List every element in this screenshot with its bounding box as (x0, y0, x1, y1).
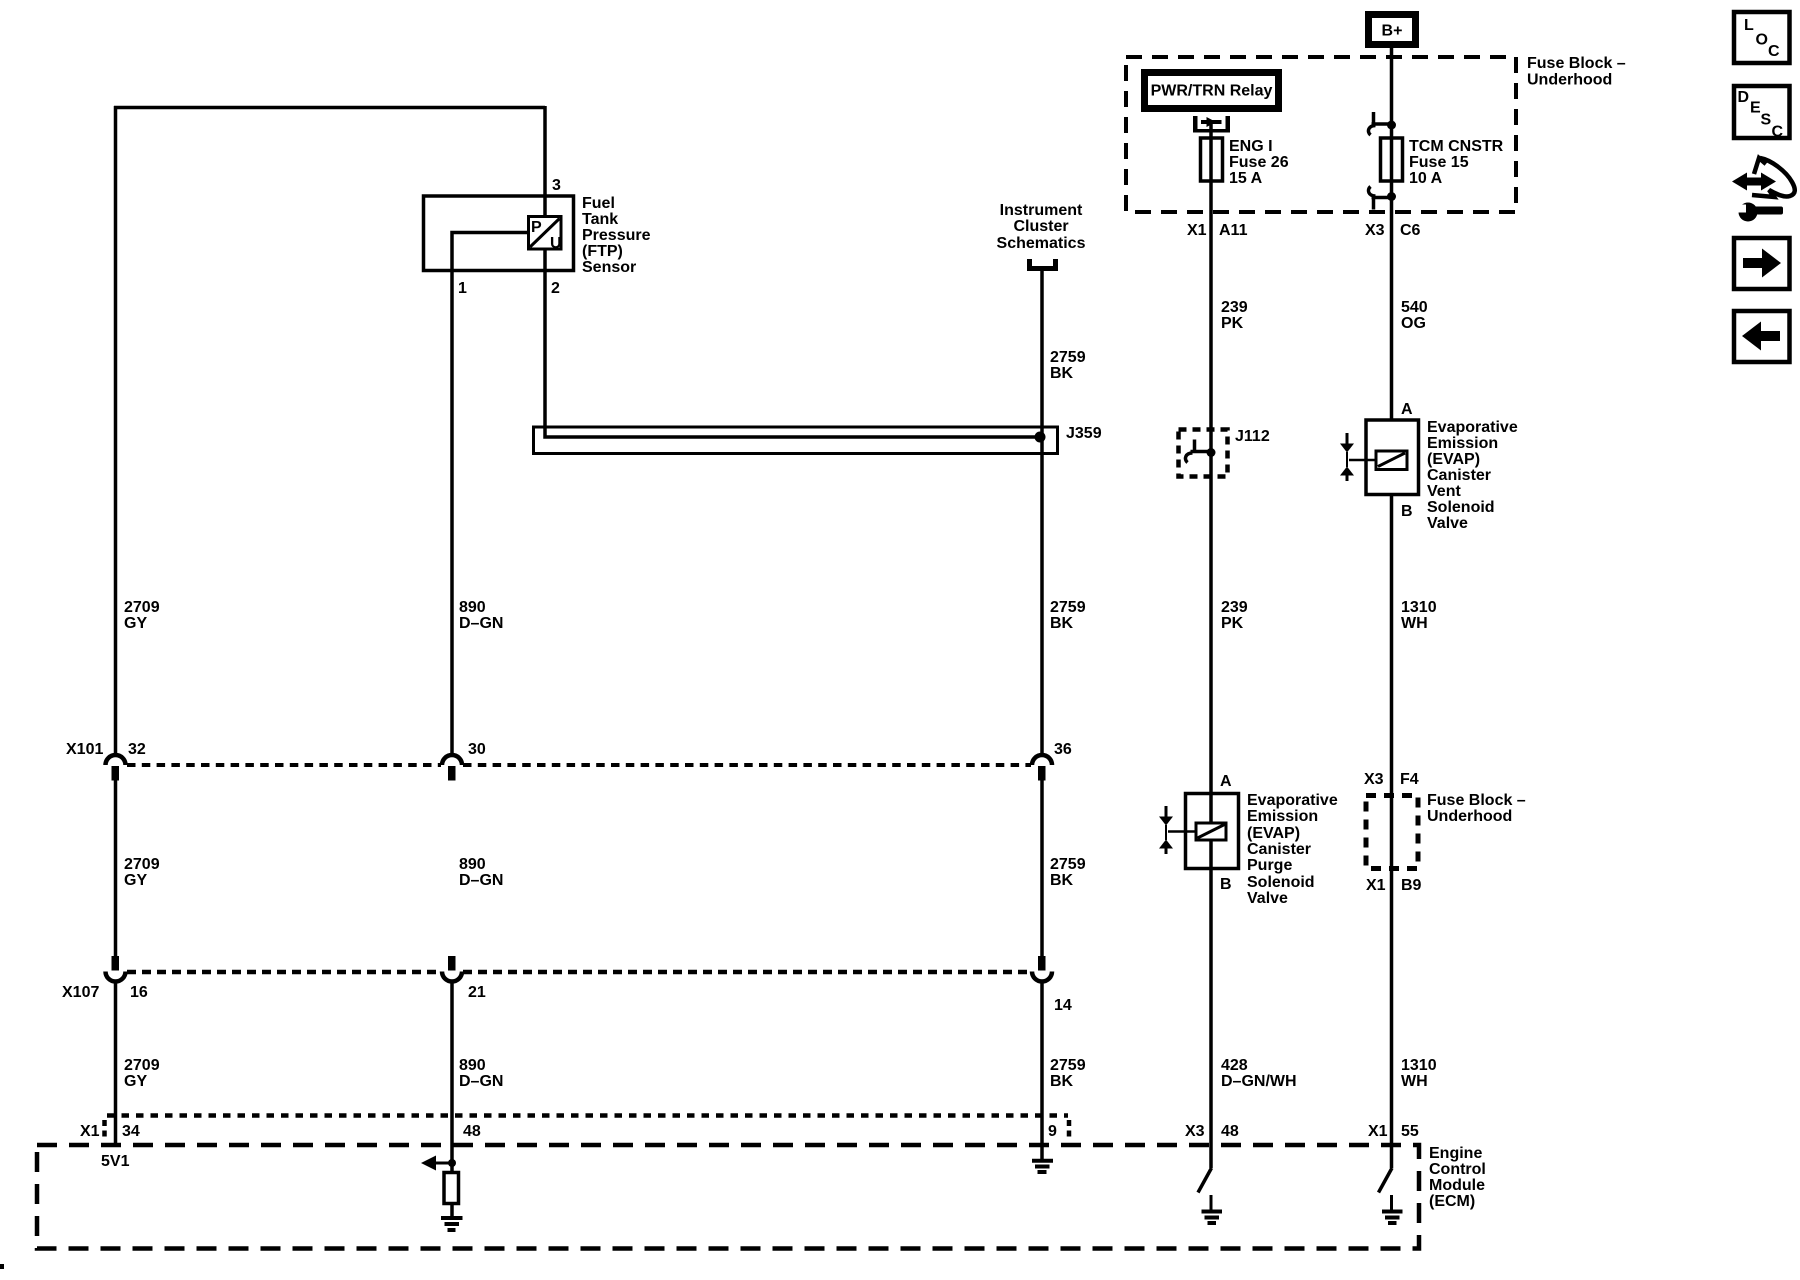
vent solenoid pin B label (1401, 503, 1413, 520)
svg-text:Cluster: Cluster (1013, 218, 1068, 235)
X107 terminal 21 (pin + arc) (442, 956, 462, 982)
vent solenoid pin A label (1401, 401, 1413, 418)
wire label 1310 WH row 4 (1401, 1057, 1437, 1090)
wire top horizontal from left wire to FTP pin 3 (114, 106, 545, 110)
resistor R1 inside ECM (444, 1173, 459, 1204)
svg-text:10 A: 10 A (1409, 170, 1443, 187)
svg-text:15 A: 15 A (1229, 170, 1263, 187)
svg-text:D: D (1738, 89, 1750, 106)
X101 pin 32 label (128, 741, 146, 758)
X107 terminal 14 (pin + arc) (1032, 956, 1052, 982)
svg-text:Schematics: Schematics (997, 235, 1086, 252)
connector X107 dashed line (127, 970, 1031, 975)
svg-text:B9: B9 (1401, 877, 1422, 894)
EVAP canister vent solenoid valve box (1366, 420, 1419, 495)
fuse block pin labels X1 A11 (1187, 222, 1248, 239)
svg-text:X3: X3 (1185, 1123, 1205, 1140)
wire 2759 BK lower segment to ground (1040, 982, 1044, 1160)
off-page connector bracket to instrument cluster (1030, 259, 1056, 269)
svg-text:BK: BK (1050, 1073, 1074, 1090)
svg-text:2759: 2759 (1050, 1057, 1086, 1074)
pin 1 label (458, 280, 467, 297)
ECM driver switch for purge solenoid (1198, 1168, 1212, 1193)
svg-text:3: 3 (552, 177, 561, 194)
J359 label (1066, 425, 1102, 442)
svg-text:O: O (1756, 32, 1768, 49)
J359 splice box (534, 427, 1058, 454)
svg-text:S: S (1761, 112, 1772, 129)
fuse TCM CNSTR Fuse 15 10A (1381, 138, 1403, 181)
connector X101 dashed line (127, 763, 1031, 767)
svg-text:Canister: Canister (1247, 841, 1311, 858)
purge solenoid pin B label (1220, 876, 1232, 893)
wire label 890 D-GN row 4 (459, 1057, 503, 1090)
svg-text:GY: GY (124, 615, 147, 632)
wire label 890 D-GN row 3 (459, 856, 503, 889)
svg-text:Solenoid: Solenoid (1427, 499, 1495, 516)
X107 pin 21 label (468, 984, 486, 1001)
svg-text:(ECM): (ECM) (1429, 1193, 1475, 1210)
svg-text:PK: PK (1221, 615, 1244, 632)
svg-text:9: 9 (1048, 1123, 1057, 1140)
svg-text:1310: 1310 (1401, 599, 1437, 616)
svg-text:B: B (1220, 876, 1232, 893)
relay contact output symbol (1193, 116, 1230, 133)
fuse block pin labels X3 C6 (1365, 222, 1421, 239)
svg-text:2709: 2709 (124, 856, 160, 873)
svg-text:36: 36 (1054, 741, 1072, 758)
svg-text:(EVAP): (EVAP) (1247, 825, 1300, 842)
vent solenoid coil (1349, 451, 1407, 470)
svg-text:890: 890 (459, 599, 486, 616)
svg-text:2759: 2759 (1050, 856, 1086, 873)
signal arrow to other circuit at ECM pin 48 (421, 1156, 456, 1171)
svg-text:239: 239 (1221, 599, 1248, 616)
svg-text:16: 16 (130, 984, 148, 1001)
EVAP canister purge solenoid valve box (1186, 794, 1239, 869)
svg-text:ENG I: ENG I (1229, 138, 1273, 155)
svg-text:GY: GY (124, 872, 147, 889)
ENG I fuse label (1229, 138, 1289, 187)
svg-text:Canister: Canister (1427, 467, 1491, 484)
pin 3 label (552, 177, 561, 194)
svg-text:GY: GY (124, 1073, 147, 1090)
svg-text:Pressure: Pressure (582, 227, 651, 244)
wire FTP pin 2 vertical down to J359 (545, 249, 1040, 437)
svg-text:Control: Control (1429, 1161, 1486, 1178)
wire label 2759 BK row 1 (1050, 349, 1086, 382)
svg-text:TCM CNSTR: TCM CNSTR (1409, 138, 1504, 155)
svg-text:2709: 2709 (124, 1057, 160, 1074)
wire label 2759 BK row 2 (1050, 599, 1086, 632)
P/U sensor symbol U1 (529, 217, 562, 253)
svg-text:540: 540 (1401, 299, 1428, 316)
svg-text:Underhood: Underhood (1527, 72, 1612, 89)
svg-text:Emission: Emission (1247, 808, 1318, 825)
svg-text:(FTP): (FTP) (582, 243, 623, 260)
svg-text:D–GN: D–GN (459, 872, 503, 889)
TCM fuse upper terminal clip (1368, 112, 1396, 135)
ECM pin labels X3 48 (1185, 1123, 1239, 1140)
svg-text:Valve: Valve (1247, 890, 1288, 907)
svg-text:BK: BK (1050, 615, 1074, 632)
fuse ENG I Fuse 26 15A (1201, 138, 1223, 181)
svg-text:PK: PK (1221, 315, 1244, 332)
svg-text:Instrument: Instrument (1000, 202, 1083, 219)
svg-text:5V1: 5V1 (101, 1153, 130, 1170)
wire left vertical 2709 GY upper segment (114, 106, 118, 755)
svg-text:PWR/TRN Relay: PWR/TRN Relay (1151, 83, 1273, 100)
svg-text:890: 890 (459, 1057, 486, 1074)
svg-text:WH: WH (1401, 615, 1428, 632)
wire resistor to ground (450, 1204, 454, 1218)
svg-text:2759: 2759 (1050, 349, 1086, 366)
purge solenoid valve symbol (1159, 806, 1173, 854)
svg-text:890: 890 (459, 856, 486, 873)
fuse block pass-through label (1427, 792, 1526, 825)
X101 terminal 32 (arc + pin) (106, 755, 126, 781)
svg-text:X1: X1 (1368, 1123, 1388, 1140)
svg-text:14: 14 (1054, 997, 1072, 1014)
ground G2 ECM internal (sensor return) (441, 1218, 463, 1230)
ECM driver ground purge (1202, 1195, 1223, 1223)
X107 terminal 16 (pin + arc) (106, 956, 126, 982)
svg-text:A11: A11 (1219, 222, 1248, 239)
svg-text:C6: C6 (1400, 222, 1421, 239)
pin 2 label (551, 280, 560, 297)
svg-text:(EVAP): (EVAP) (1427, 451, 1480, 468)
svg-text:Fuse Block –: Fuse Block – (1527, 55, 1626, 72)
svg-text:A: A (1220, 773, 1232, 790)
svg-text:2709: 2709 (124, 599, 160, 616)
svg-text:Emission: Emission (1427, 435, 1498, 452)
wire label 890 D-GN row 2 (459, 599, 503, 632)
wire label 540 OG row 1 (1401, 299, 1428, 332)
X101 pin 30 label (468, 741, 486, 758)
J112 splice clip (1185, 440, 1215, 463)
wire label 428 D-GN/WH row 4 (1221, 1057, 1297, 1090)
PWR/TRN Relay box (1141, 69, 1282, 112)
connector X1 dotted line (ECM harness) (107, 1113, 1068, 1118)
connector X101 label (66, 741, 103, 758)
wire label 2759 BK row 3 (1050, 856, 1086, 889)
svg-text:239: 239 (1221, 299, 1248, 316)
5V1 net label (101, 1153, 130, 1170)
svg-text:C: C (1772, 124, 1784, 141)
svg-text:Fuse 15: Fuse 15 (1409, 154, 1469, 171)
X1 pin 9 label (1048, 1123, 1057, 1140)
vent solenoid valve symbol (1340, 433, 1354, 481)
svg-text:BK: BK (1050, 872, 1074, 889)
svg-text:OG: OG (1401, 315, 1426, 332)
svg-text:X3: X3 (1364, 771, 1384, 788)
wire label 2759 BK row 4 (1050, 1057, 1086, 1090)
Fuse Block - Underhood label (top right) (1527, 55, 1626, 89)
svg-text:X3: X3 (1365, 222, 1385, 239)
svg-text:F4: F4 (1400, 771, 1419, 788)
Fuse Block - Underhood dashed box (1126, 57, 1516, 212)
svg-text:Fuse 26: Fuse 26 (1229, 154, 1289, 171)
fuse block pass-through dashed box (1366, 796, 1418, 869)
svg-text:Fuel: Fuel (582, 195, 615, 212)
svg-text:1310: 1310 (1401, 1057, 1437, 1074)
svg-text:48: 48 (1221, 1123, 1239, 1140)
wire 890 D-GN bottom segment into ECM (450, 982, 454, 1173)
J359 junction dot (1035, 432, 1046, 443)
wire label 1310 WH row 2 (1401, 599, 1437, 632)
svg-text:L: L (1744, 17, 1754, 34)
svg-text:X1: X1 (80, 1123, 100, 1140)
FTP sensor name label (582, 195, 651, 276)
svg-text:C: C (1768, 43, 1780, 60)
wire label 239 PK row 2 (1221, 599, 1248, 632)
X101 terminal 30 (arc + pin) (442, 755, 462, 781)
svg-text:B+: B+ (1382, 23, 1403, 40)
purge solenoid coil (1168, 823, 1226, 840)
svg-text:Engine: Engine (1429, 1145, 1482, 1162)
EVAP canister vent solenoid valve label (1427, 419, 1518, 532)
X1 pin 34 label (122, 1123, 140, 1140)
B+ power feed box (1365, 11, 1419, 48)
wire label 2709 GY row 2 (124, 599, 160, 632)
Instrument Cluster Schematics label (997, 202, 1086, 252)
svg-text:U: U (550, 235, 562, 252)
X1 pin 48 label (463, 1123, 481, 1140)
svg-text:1: 1 (458, 280, 467, 297)
svg-text:D–GN: D–GN (459, 1073, 503, 1090)
ECM driver ground vent (1382, 1195, 1403, 1223)
wire label 239 PK row 1 (1221, 299, 1248, 332)
X107 pin 16 label (130, 984, 148, 1001)
wire 2759 BK middle segment (1040, 780, 1044, 956)
fuse block pass-through X1 B9 labels (1366, 877, 1422, 894)
Engine Control Module (ECM) label (1429, 1145, 1486, 1210)
FTP sensor box (424, 196, 574, 271)
wire FTP pin 1 (890 D-GN) from P/U to left then down (452, 233, 527, 755)
ECM pin labels X1 55 (1368, 1123, 1419, 1140)
svg-text:Evaporative: Evaporative (1427, 419, 1518, 436)
svg-text:X101: X101 (66, 741, 103, 758)
svg-text:32: 32 (128, 741, 146, 758)
svg-text:E: E (1750, 100, 1761, 117)
svg-text:Underhood: Underhood (1427, 808, 1512, 825)
svg-text:J359: J359 (1066, 425, 1102, 442)
X1 connector label separator left (102, 1120, 107, 1140)
svg-text:A: A (1401, 401, 1413, 418)
wire 540 OG from B+ down through TCM fuse (1390, 48, 1394, 419)
connector X107 label (62, 984, 99, 1001)
svg-text:D–GN/WH: D–GN/WH (1221, 1073, 1297, 1090)
svg-text:21: 21 (468, 984, 486, 1001)
svg-text:428: 428 (1221, 1057, 1248, 1074)
wire 1310 WH from vent solenoid down (1390, 494, 1394, 1168)
ECM driver switch for vent solenoid (1379, 1168, 1393, 1193)
TCM fuse lower terminal clip (1368, 187, 1396, 210)
svg-text:X1: X1 (1187, 222, 1207, 239)
svg-text:X107: X107 (62, 984, 99, 1001)
DESC navigation icon box (1734, 86, 1790, 141)
wire 2759 BK from bracket down through J359 (1040, 271, 1044, 755)
X107 pin 14 label (1054, 997, 1072, 1014)
svg-text:BK: BK (1050, 365, 1074, 382)
J112 splice dashed box (1179, 430, 1228, 477)
X101 pin 36 label (1054, 741, 1072, 758)
EVAP canister purge solenoid valve label (1247, 792, 1338, 907)
svg-text:P: P (531, 219, 542, 236)
harness repair icon (double arrow, squiggle, wrench) (1732, 158, 1795, 222)
svg-text:30: 30 (468, 741, 486, 758)
svg-text:Vent: Vent (1427, 483, 1461, 500)
back navigation arrow box (1734, 311, 1790, 362)
page edge artifact mark (0, 1264, 4, 1269)
svg-text:J112: J112 (1235, 428, 1270, 445)
svg-text:WH: WH (1401, 1073, 1428, 1090)
wire label 2709 GY row 4 (124, 1057, 160, 1090)
purge solenoid pin A label (1220, 773, 1232, 790)
svg-text:48: 48 (463, 1123, 481, 1140)
svg-text:Fuse Block –: Fuse Block – (1427, 792, 1526, 809)
connector X1 label (80, 1123, 100, 1140)
svg-text:Valve: Valve (1427, 515, 1468, 532)
wire label 2709 GY row 3 (124, 856, 160, 889)
svg-text:B: B (1401, 503, 1413, 520)
fuse block pass-through X3 F4 labels (1364, 771, 1419, 788)
svg-text:D–GN: D–GN (459, 615, 503, 632)
X101 terminal 36 (arc + pin) (1032, 755, 1052, 781)
wire FTP pin 3 vertical (543, 106, 547, 217)
svg-text:2: 2 (551, 280, 560, 297)
svg-text:Module: Module (1429, 1177, 1485, 1194)
ground G1 instrument circuit (1032, 1161, 1053, 1172)
ECM dashed box (37, 1145, 1419, 1249)
svg-text:Tank: Tank (582, 211, 618, 228)
svg-text:X1: X1 (1366, 877, 1386, 894)
wire 239 PK from relay through fuse down to ECM (1209, 124, 1213, 1168)
X1 connector label separator right (1067, 1120, 1072, 1140)
LOC navigation icon box (1734, 12, 1790, 63)
svg-text:Sensor: Sensor (582, 259, 636, 276)
wire left vertical 2709 GY middle segment (114, 780, 118, 956)
TCM CNSTR fuse label (1409, 138, 1504, 187)
svg-text:Solenoid: Solenoid (1247, 874, 1315, 891)
forward navigation arrow box (1734, 238, 1790, 289)
J112 label (1235, 428, 1270, 445)
svg-text:Purge: Purge (1247, 857, 1292, 874)
svg-text:2759: 2759 (1050, 599, 1086, 616)
svg-text:34: 34 (122, 1123, 140, 1140)
svg-text:55: 55 (1401, 1123, 1419, 1140)
wire left vertical 2709 GY lower segment (114, 982, 118, 1145)
svg-text:Evaporative: Evaporative (1247, 792, 1338, 809)
